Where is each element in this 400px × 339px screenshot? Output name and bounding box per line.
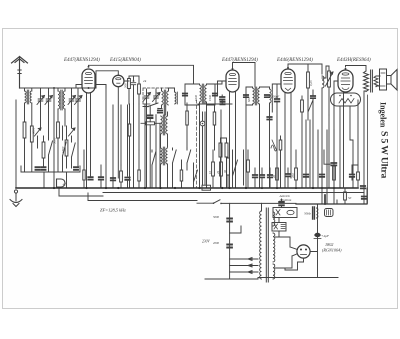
wire: sub-bus y192.5 xyxy=(103,192,364,194)
resistor R12 xyxy=(138,150,141,188)
svg-text:1500: 1500 xyxy=(208,95,212,102)
svg-text:E447(RENS1294): E447(RENS1294) xyxy=(221,58,258,63)
capacitor C32 xyxy=(361,186,365,188)
antenna plug connector xyxy=(18,70,21,74)
svg-text:E415(REN904): E415(REN904) xyxy=(109,58,141,63)
resistor R18 xyxy=(276,168,279,188)
wire: U3 cathode drops xyxy=(230,92,236,188)
wire: HT to rectifier xyxy=(276,237,298,250)
trimmer capacitor C1 xyxy=(37,92,45,106)
dial drive unit box xyxy=(273,208,297,218)
wire: lower bus y200 xyxy=(88,193,197,201)
svg-text:+4µF: +4µF xyxy=(321,234,330,238)
trimmer arrow T1a xyxy=(35,128,42,148)
trimmer capacitor C10 xyxy=(153,89,161,103)
wire: T1 left loop xyxy=(185,84,200,105)
tube U5 E443H envelope xyxy=(338,70,353,92)
wire: C14 drop xyxy=(221,95,223,104)
capacitor C31 xyxy=(350,175,354,177)
wire: mains bottom xyxy=(205,278,258,280)
tube U1 E447 envelope xyxy=(82,69,95,93)
resistor R7 0.25 xyxy=(307,64,310,100)
switch S5 xyxy=(308,100,313,120)
capacitor C6 xyxy=(42,167,46,170)
bus junction dots xyxy=(53,187,335,189)
wire: HT rail y204 xyxy=(296,203,367,205)
capacitor C39 dark xyxy=(221,102,225,105)
voltage tap 3 xyxy=(230,271,258,274)
wire: T1 right to U3 grid xyxy=(207,81,227,105)
wire: U5 anode to T3 xyxy=(346,66,367,72)
capacitor C38 dark xyxy=(148,116,152,119)
capacitor C24 xyxy=(253,175,257,177)
wire: battery tap xyxy=(59,188,103,196)
resistor R19 xyxy=(295,150,298,188)
capacitor C12 xyxy=(183,94,187,96)
svg-text:230V: 230V xyxy=(202,240,210,244)
filter choke L7 winding xyxy=(317,208,318,218)
wire: U1 cathode drops xyxy=(87,93,91,188)
capacitor C42 xyxy=(267,117,271,120)
wire: U2 grid cap left xyxy=(96,71,118,88)
trimmer arrow T1b + switch S3 xyxy=(69,128,76,168)
regulator box xyxy=(272,223,286,232)
tube U2 electrodes xyxy=(116,78,121,80)
svg-text:500: 500 xyxy=(124,83,128,88)
tube U3 top cap xyxy=(232,68,234,70)
svg-text:20: 20 xyxy=(272,175,276,179)
capacitor C16 xyxy=(265,95,269,97)
wire: selector step xyxy=(230,226,241,233)
trimmer capacitor C9 xyxy=(143,89,151,103)
wire: L1 leads xyxy=(25,88,32,126)
resistor R8 xyxy=(301,96,304,188)
resistor R4 xyxy=(65,126,68,168)
tube U3 electrodes xyxy=(230,73,236,75)
fuse F1 on bus xyxy=(202,185,211,190)
wire: rectifier output riser xyxy=(310,204,317,278)
capacitor C30 xyxy=(331,163,336,165)
wire: C18 leads xyxy=(312,90,314,188)
wire: C42 drop xyxy=(269,120,271,189)
wire: T1 drops xyxy=(200,105,207,188)
resistor R26 xyxy=(186,103,189,148)
wire: T2 L5 links xyxy=(246,84,277,188)
resistor R11 xyxy=(120,165,123,188)
partition dash line xyxy=(196,100,198,188)
switch S10 xyxy=(187,148,191,170)
chassis bus xyxy=(16,187,358,189)
trimmer capacitor C4 xyxy=(75,92,83,106)
power transformer T5 primary xyxy=(260,211,262,279)
tube U5 electrodes xyxy=(342,73,349,75)
wire: link to U5 grid network xyxy=(322,66,329,78)
svg-text:Abstimm: Abstimm xyxy=(279,198,292,202)
resistor R14 xyxy=(212,162,215,176)
svg-text:10: 10 xyxy=(208,171,212,175)
oscillator box xyxy=(143,88,168,104)
resistor R25 xyxy=(128,104,131,188)
output transformer T3 secondary xyxy=(374,76,378,87)
battery 4.5V xyxy=(57,179,66,187)
phono jack J3 xyxy=(200,121,205,126)
wire: C17 drop xyxy=(276,102,278,189)
resistor R1a xyxy=(23,122,26,172)
svg-text:S 5 W Ultra: S 5 W Ultra xyxy=(379,131,390,179)
capacitor C26 xyxy=(268,175,272,177)
svg-text:1500: 1500 xyxy=(194,95,198,102)
capacitor C23 xyxy=(125,178,129,180)
output transformer T3 primary xyxy=(364,71,369,92)
wire: x54 drop xyxy=(53,88,55,188)
capacitor C15 xyxy=(244,95,248,97)
mains selector vertical xyxy=(229,203,231,279)
wire: jack lead xyxy=(202,112,204,185)
wire: HT thick feed xyxy=(324,195,326,204)
wire: AVC line y104 xyxy=(198,102,232,104)
capacitor C20 xyxy=(88,177,92,179)
wire: U1 grid side stubs xyxy=(76,85,106,89)
wire: U4 anode cap top run xyxy=(288,64,322,74)
wire: U5 grid left lead xyxy=(334,81,338,188)
detector coil L5 xyxy=(270,88,273,104)
svg-text:Ingelen: Ingelen xyxy=(379,102,388,128)
wire: heater to rectifier xyxy=(276,254,298,268)
capacitor C35 xyxy=(227,245,232,248)
node J2 + capacitor C8 xyxy=(133,80,135,82)
svg-text:6000: 6000 xyxy=(32,127,36,134)
block capacitor C41 xyxy=(221,138,229,188)
output transformer T3 core xyxy=(371,70,373,92)
tube U5 top cap xyxy=(345,68,347,70)
padder coil L4 xyxy=(175,92,178,104)
wire: left ground feed xyxy=(15,100,17,188)
resistor R6 xyxy=(138,76,141,104)
volume pot R28 squiggle xyxy=(271,140,277,151)
wire: T5 top leads xyxy=(262,203,274,212)
switch S4 wavechange xyxy=(143,103,162,109)
tube U4 E446 envelope xyxy=(281,69,295,93)
wire: box links xyxy=(279,199,282,237)
voltage tap 2 xyxy=(230,264,258,267)
wire: mid links xyxy=(150,107,160,189)
resistor R2 xyxy=(42,136,45,167)
tube U2 E415 envelope xyxy=(113,75,124,86)
capacitor C13 xyxy=(213,94,217,96)
svg-text:2000: 2000 xyxy=(213,241,220,245)
resistor R21 xyxy=(352,165,359,188)
resistor R15 xyxy=(220,162,223,188)
tube U4 electrodes xyxy=(285,72,291,74)
wire: right-mid verticals xyxy=(205,110,334,203)
speaker LS cone xyxy=(387,70,398,91)
svg-text:50: 50 xyxy=(348,196,352,200)
svg-text:25: 25 xyxy=(216,171,220,175)
IF coil L8 second section xyxy=(161,115,168,135)
antenna A1 xyxy=(12,57,28,89)
tube U1 top cap xyxy=(88,66,90,68)
ground symbol E1 xyxy=(14,190,17,193)
capacitor C25 xyxy=(260,175,264,177)
node J1 xyxy=(53,87,55,89)
wire: L6 drop xyxy=(321,88,323,188)
resistor R29 xyxy=(279,136,282,188)
T5 secondary upper xyxy=(273,212,275,226)
wire: right feeds xyxy=(344,92,359,188)
wire: U1 anode cap to IFT2 top xyxy=(89,65,194,84)
tube U1 electrodes xyxy=(86,72,92,74)
svg-text:E447(RENS1294): E447(RENS1294) xyxy=(63,58,100,63)
svg-text:50Hz: 50Hz xyxy=(304,212,311,216)
wire: sub-bus y172 xyxy=(21,166,80,172)
power transformer T5 core xyxy=(266,208,268,282)
capacitor C7 xyxy=(74,167,78,170)
voltage tap 1 xyxy=(230,258,258,261)
IF transformer T1 xyxy=(200,84,207,103)
capacitor C14 xyxy=(220,97,225,100)
svg-text:2k: 2k xyxy=(143,79,147,83)
wire: U5 heater drops xyxy=(340,106,353,188)
HF choke L6 xyxy=(322,76,324,88)
svg-text:5000: 5000 xyxy=(53,137,57,144)
filter choke L7 core xyxy=(313,207,315,219)
wire: drops to chassis bus xyxy=(44,172,67,188)
variable resistor R9 xyxy=(326,66,334,115)
svg-text:500: 500 xyxy=(247,97,251,102)
resistor R5 xyxy=(124,77,130,104)
wire: T2 left loop xyxy=(246,87,253,105)
capacitor C21 xyxy=(99,177,103,179)
svg-text:200: 200 xyxy=(291,173,295,178)
capacitor C36 xyxy=(279,202,284,205)
wire: R9 drop xyxy=(328,115,330,188)
svg-text:1802: 1802 xyxy=(325,242,333,247)
wire: R5 R6 top link xyxy=(129,75,139,77)
wire: U3 grid lead xyxy=(218,81,227,95)
capacitor C5 xyxy=(36,167,40,170)
RF coil L2 xyxy=(58,90,65,110)
wire: U4 grid lead xyxy=(277,84,281,98)
switch S7 xyxy=(233,150,238,188)
wire: mains feed with switch S8 xyxy=(197,200,296,204)
capacitor C18 xyxy=(311,96,315,98)
capacitor C17 500pF xyxy=(275,99,280,102)
svg-text:E443H(RES964): E443H(RES964) xyxy=(336,58,371,63)
svg-text:5000: 5000 xyxy=(213,215,220,219)
switch S1 xyxy=(49,138,53,172)
block capacitor C40 xyxy=(219,138,222,188)
capacitor C27 xyxy=(286,174,290,176)
svg-text:500pF: 500pF xyxy=(271,95,279,99)
resistor R20 xyxy=(333,166,336,188)
wire: C21 leads xyxy=(100,165,102,188)
wire: field coil lead xyxy=(367,95,369,203)
wire: far right vertical xyxy=(366,188,368,203)
resistor R17 xyxy=(247,150,250,188)
wire: L8 leads xyxy=(162,105,168,147)
tube U3 E447 envelope xyxy=(226,70,239,92)
antenna coil L1 xyxy=(25,90,32,104)
capacitor C29 xyxy=(320,175,324,177)
trimmer capacitor C3 xyxy=(68,92,76,106)
capacitor C11 xyxy=(158,111,162,113)
wire: mid vertical drops xyxy=(106,85,156,189)
electrolytic capacitor C37 xyxy=(314,233,320,237)
wire: L2 leads xyxy=(58,88,65,126)
wire: C23 drop xyxy=(127,180,129,188)
node pins xyxy=(339,95,341,97)
T5 secondary heater xyxy=(273,264,275,279)
svg-text:E446(RENS1294): E446(RENS1294) xyxy=(276,58,313,63)
capacitor C28 xyxy=(304,175,308,177)
resistor R27 xyxy=(213,104,216,150)
resistor R24 horizontal xyxy=(141,122,160,125)
resistor R13 xyxy=(180,160,183,188)
speaker LS frame xyxy=(380,69,387,90)
wire: U4 cathode drops xyxy=(285,93,291,188)
T5 secondary HT xyxy=(273,233,275,262)
wire: power bottom line xyxy=(258,277,338,279)
tube U4 top cap xyxy=(287,67,289,69)
wire: T3 return xyxy=(364,91,366,204)
IF transformer T2 xyxy=(253,87,260,105)
wire: secondary to speaker xyxy=(376,76,380,86)
trimmer capacitor C2 xyxy=(45,92,53,106)
capacitor C33 xyxy=(362,197,366,199)
wire: L9 leads xyxy=(161,134,168,188)
svg-text:30: 30 xyxy=(223,170,227,174)
wire: antenna lead to RF bus y88 xyxy=(20,87,97,89)
svg-text:(RGN1064): (RGN1064) xyxy=(322,248,342,253)
capacitor C22 xyxy=(111,178,115,180)
capacitor C34 xyxy=(227,219,232,222)
resistor R1b xyxy=(30,126,33,172)
resistor R23 xyxy=(83,150,85,188)
switch S2 xyxy=(63,126,67,172)
resistor R10 zigzag xyxy=(339,99,354,104)
rectifier tube U6 xyxy=(297,245,310,258)
wire: L3 top leads xyxy=(162,88,175,92)
svg-text:1000: 1000 xyxy=(61,146,65,153)
fuse Si xyxy=(325,209,334,217)
oscillator coil L3 xyxy=(162,90,169,106)
switch S6 xyxy=(194,163,198,188)
resistor R16 xyxy=(227,158,230,175)
wire: U3 anode cap to IFT3 xyxy=(233,63,256,88)
wire: U2 drop xyxy=(117,87,119,178)
switch S9 xyxy=(173,148,177,188)
tube U5 base xyxy=(331,93,361,106)
resistor R3a xyxy=(57,122,60,172)
switch S11 xyxy=(152,150,156,188)
wire: rectifier return xyxy=(285,258,304,270)
wire: C3 C4 leads xyxy=(72,88,79,167)
wire: C1 C2 leads xyxy=(41,88,49,138)
IF coil L9 third section xyxy=(161,147,168,165)
resistor R22 xyxy=(337,188,346,203)
